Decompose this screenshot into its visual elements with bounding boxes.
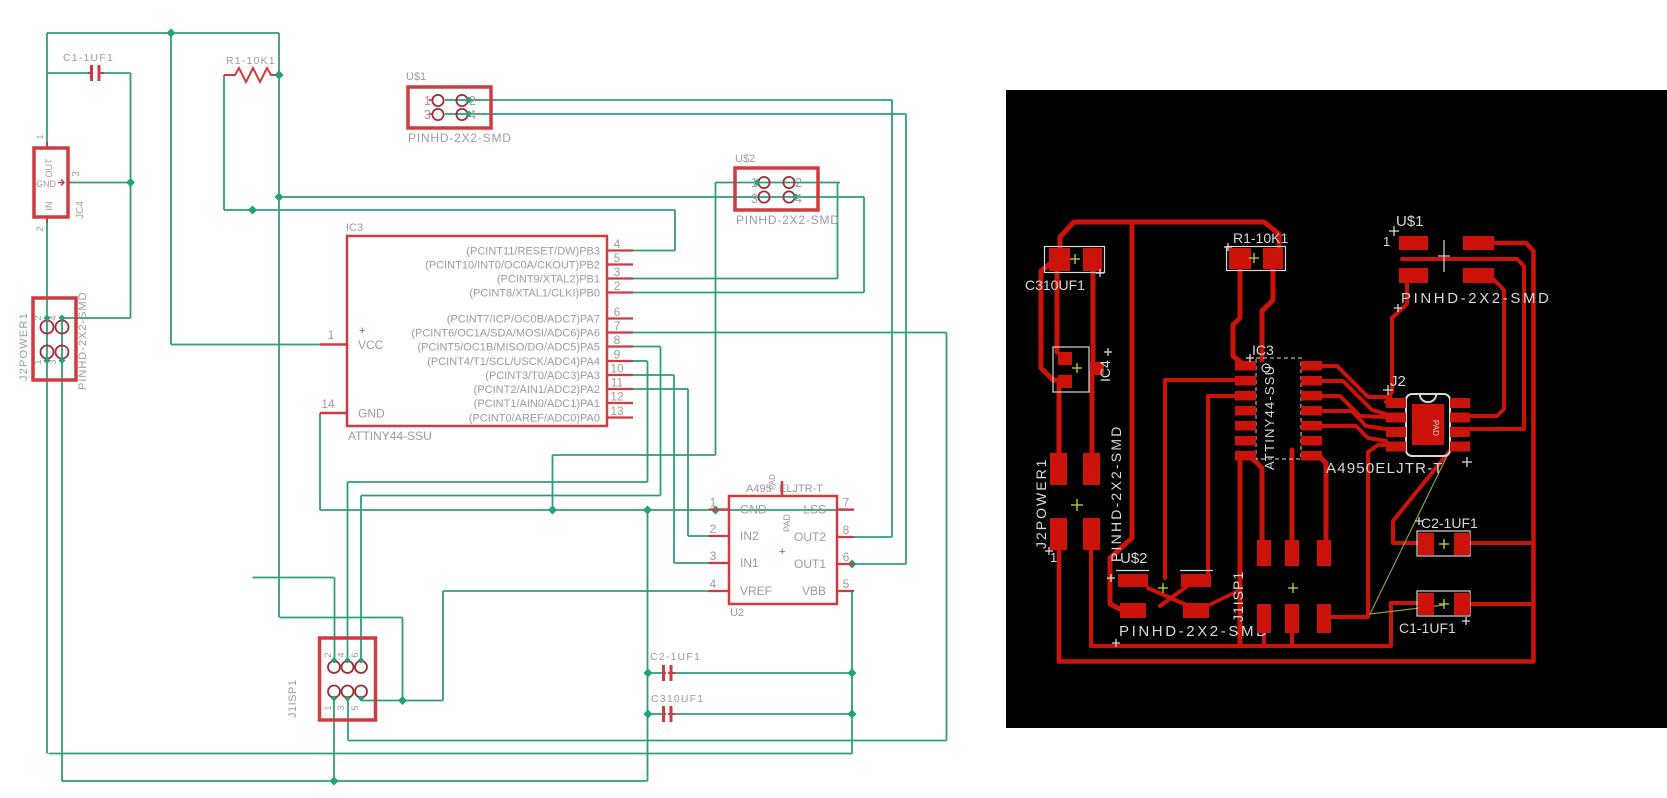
svg-text:ELJTR-T: ELJTR-T: [779, 483, 823, 495]
svg-text:(PCINT9/XTAL2)PB1: (PCINT9/XTAL2)PB1: [497, 274, 600, 286]
svg-text:PINHD-2X2-SMD: PINHD-2X2-SMD: [1119, 623, 1269, 640]
svg-text:PAD: PAD: [1431, 420, 1440, 436]
svg-text:OUT1: OUT1: [794, 557, 826, 571]
svg-text:J2: J2: [1390, 373, 1406, 390]
svg-text:C1-1UF1: C1-1UF1: [1399, 620, 1456, 636]
svg-text:7: 7: [614, 319, 621, 333]
svg-text:PINHD-2X2-SMD: PINHD-2X2-SMD: [77, 291, 89, 390]
svg-text:13: 13: [610, 404, 624, 418]
svg-text:C310UF1: C310UF1: [1025, 277, 1085, 293]
svg-text:2: 2: [795, 176, 802, 190]
svg-text:JC4: JC4: [75, 201, 86, 219]
svg-text:6: 6: [843, 550, 850, 564]
svg-text:+: +: [359, 325, 365, 337]
svg-text:2: 2: [33, 315, 43, 320]
svg-text:GND: GND: [358, 407, 385, 421]
svg-text:C1-1UF1: C1-1UF1: [63, 52, 114, 64]
svg-text:ATTINY44-SSU: ATTINY44-SSU: [1262, 365, 1277, 470]
svg-text:1: 1: [751, 176, 758, 190]
svg-text:J2POWER1: J2POWER1: [18, 312, 30, 381]
svg-text:J2POWER1: J2POWER1: [1033, 458, 1049, 549]
svg-text:(PCINT0/AREF/ADC0)PA0: (PCINT0/AREF/ADC0)PA0: [469, 413, 600, 425]
svg-text:3: 3: [48, 359, 58, 364]
svg-text:3: 3: [424, 108, 431, 122]
svg-text:C2-1UF1: C2-1UF1: [1421, 515, 1478, 531]
svg-text:3: 3: [336, 705, 346, 710]
svg-text:C310UF1: C310UF1: [651, 693, 704, 705]
svg-text:6: 6: [614, 305, 621, 319]
svg-text:GND: GND: [36, 179, 57, 189]
svg-text:U$2: U$2: [735, 153, 755, 165]
svg-text:PAD: PAD: [782, 514, 792, 532]
svg-text:3: 3: [751, 192, 758, 206]
svg-text:4: 4: [795, 192, 802, 206]
svg-text:11: 11: [611, 376, 624, 390]
svg-text:PINHD-2X2-SMD: PINHD-2X2-SMD: [1401, 290, 1551, 307]
svg-text:U2: U2: [730, 607, 744, 619]
svg-text:1: 1: [323, 705, 333, 710]
svg-text:2: 2: [614, 279, 621, 293]
svg-text:5: 5: [350, 705, 360, 710]
svg-text:1: 1: [1050, 550, 1057, 565]
svg-text:8: 8: [614, 333, 621, 347]
svg-text:PAD: PAD: [768, 474, 777, 490]
svg-text:IN2: IN2: [740, 529, 759, 543]
svg-text:9: 9: [614, 348, 621, 362]
svg-text:2: 2: [35, 226, 45, 231]
svg-text:5: 5: [614, 251, 621, 265]
svg-text:(PCINT8/XTAL1/CLKI)PB0: (PCINT8/XTAL1/CLKI)PB0: [469, 288, 600, 300]
svg-text:1: 1: [33, 359, 43, 364]
svg-text:U$1: U$1: [406, 71, 426, 83]
svg-text:12: 12: [610, 390, 624, 404]
svg-text:3: 3: [71, 171, 82, 177]
svg-text:OUT: OUT: [44, 158, 54, 178]
svg-text:1: 1: [710, 496, 717, 510]
svg-text:1: 1: [35, 134, 45, 139]
svg-text:(PCINT4/T1/SCL/USCK/ADC4)PA4: (PCINT4/T1/SCL/USCK/ADC4)PA4: [427, 356, 600, 368]
svg-text:IC4: IC4: [1097, 360, 1113, 382]
svg-text:IN1: IN1: [740, 556, 759, 570]
svg-text:PINHD-2X2-SMD: PINHD-2X2-SMD: [736, 213, 840, 227]
svg-text:14: 14: [321, 397, 335, 411]
svg-text:8: 8: [843, 523, 850, 537]
svg-text:6: 6: [350, 652, 360, 657]
svg-text:1: 1: [1383, 234, 1390, 249]
svg-text:+: +: [779, 546, 785, 558]
svg-text:(PCINT11/RESET/DW)PB3: (PCINT11/RESET/DW)PB3: [466, 246, 600, 258]
svg-text:J1ISP1: J1ISP1: [1230, 571, 1246, 622]
svg-text:IC3: IC3: [346, 222, 363, 234]
svg-text:VBB: VBB: [802, 584, 826, 598]
svg-text:2: 2: [323, 652, 333, 657]
svg-text:U$2: U$2: [1120, 550, 1148, 567]
svg-text:R1-10K1: R1-10K1: [1233, 230, 1288, 246]
svg-text:3: 3: [614, 265, 621, 279]
svg-text:4: 4: [614, 237, 621, 251]
svg-text:C2-1UF1: C2-1UF1: [650, 651, 701, 663]
svg-text:J1ISP1: J1ISP1: [287, 680, 299, 718]
svg-text:PINHD-2X2-SMD: PINHD-2X2-SMD: [408, 131, 512, 145]
svg-text:PINHD-2X2-SMD: PINHD-2X2-SMD: [1108, 424, 1124, 562]
svg-text:4: 4: [336, 652, 346, 657]
svg-text:VCC: VCC: [358, 338, 384, 352]
svg-text:(PCINT1/AIN0/ADC1)PA1: (PCINT1/AIN0/ADC1)PA1: [474, 398, 600, 410]
svg-text:ATTINY44-SSU: ATTINY44-SSU: [348, 429, 432, 443]
svg-text:10: 10: [610, 362, 624, 376]
svg-text:OUT2: OUT2: [794, 530, 826, 544]
svg-text:2: 2: [469, 94, 476, 108]
svg-text:2: 2: [710, 522, 717, 536]
svg-text:(PCINT3/T0/ADC3)PA3: (PCINT3/T0/ADC3)PA3: [485, 370, 600, 382]
svg-text:(PCINT10/INT0/OC0A/CKOUT)PB2: (PCINT10/INT0/OC0A/CKOUT)PB2: [425, 260, 600, 272]
svg-text:U$1: U$1: [1396, 213, 1424, 230]
svg-text:(PCINT7/ICP/OC0B/ADC7)PA7: (PCINT7/ICP/OC0B/ADC7)PA7: [447, 314, 600, 326]
svg-text:1: 1: [328, 328, 335, 342]
svg-text:(PCINT5/OC1B/MISO/DO/ADC5)PA5: (PCINT5/OC1B/MISO/DO/ADC5)PA5: [417, 342, 600, 354]
svg-text:VREF: VREF: [740, 584, 772, 598]
svg-text:1: 1: [424, 94, 431, 108]
svg-text:5: 5: [843, 577, 850, 591]
svg-text:R1-10K1: R1-10K1: [226, 55, 276, 67]
svg-text:LSS: LSS: [803, 503, 826, 517]
svg-text:IN: IN: [44, 202, 54, 211]
svg-text:GND: GND: [740, 503, 767, 517]
svg-text:IC3: IC3: [1252, 342, 1274, 358]
svg-text:A4950ELJTR-T: A4950ELJTR-T: [1326, 460, 1444, 477]
svg-text:(PCINT6/OC1A/SDA/MOSI/ADC6)PA6: (PCINT6/OC1A/SDA/MOSI/ADC6)PA6: [411, 328, 600, 340]
svg-text:4: 4: [469, 108, 476, 122]
svg-text:4: 4: [710, 577, 717, 591]
svg-text:7: 7: [843, 496, 850, 510]
svg-text:4: 4: [48, 315, 58, 320]
svg-text:3: 3: [710, 549, 717, 563]
svg-text:(PCINT2/AIN1/ADC2)PA2: (PCINT2/AIN1/ADC2)PA2: [474, 384, 600, 396]
